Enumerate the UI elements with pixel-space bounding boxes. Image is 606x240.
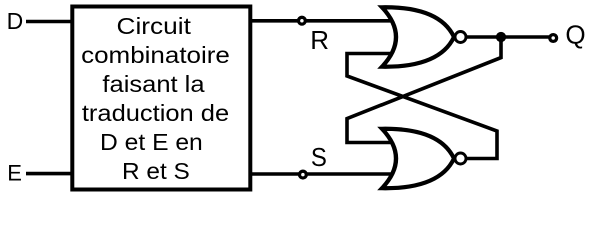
svg-text:Circuit: Circuit (117, 13, 192, 39)
svg-text:Q: Q (565, 20, 585, 50)
svg-text:R: R (310, 25, 329, 55)
svg-text:R et S: R et S (122, 158, 190, 184)
svg-text:S: S (311, 142, 327, 172)
svg-text:faisant la: faisant la (102, 71, 204, 97)
svg-text:traduction de: traduction de (82, 100, 229, 126)
svg-text:combinatoire: combinatoire (81, 42, 230, 68)
svg-text:D et E en: D et E en (100, 129, 203, 155)
svg-text:E: E (7, 161, 22, 186)
svg-text:D: D (7, 8, 24, 34)
